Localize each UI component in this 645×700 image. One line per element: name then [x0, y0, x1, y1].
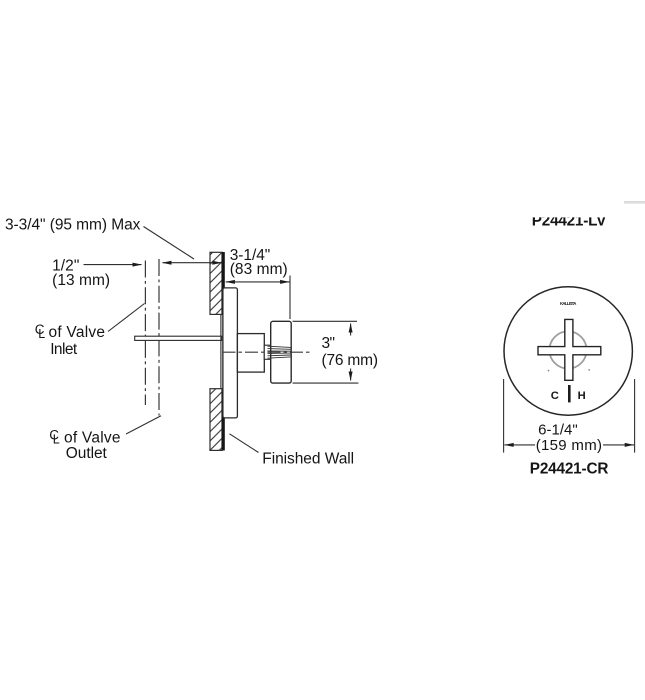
dimension 3-1/4 line: [226, 281, 290, 283]
leader outlet: [126, 416, 161, 434]
svg-text:Finished Wall: Finished Wall: [262, 451, 354, 468]
svg-text:(83 mm): (83 mm): [230, 261, 288, 278]
stem splines: [268, 346, 291, 358]
finished wall bottom section (hatched): [210, 389, 222, 451]
escutcheon plate front view (circle): [504, 287, 632, 415]
svg-text:3-3/4" (95 mm) Max: 3-3/4" (95 mm) Max: [5, 217, 141, 234]
svg-text:C: C: [551, 390, 559, 402]
handle skirt inner circle: [549, 331, 586, 368]
extension lines for 6-1/4: [503, 379, 505, 453]
valve stem: [264, 345, 271, 359]
handle knob (side profile): [271, 321, 292, 383]
escutcheon sleeve (side profile): [223, 288, 238, 418]
leader for 3-3/4 max: [144, 227, 195, 260]
svg-text:of Valve: of Valve: [49, 324, 106, 341]
svg-text:L: L: [53, 433, 60, 447]
svg-text:(159 mm): (159 mm): [536, 437, 602, 454]
leader inlet: [108, 304, 145, 332]
faint crop artifact top-right: [624, 201, 645, 204]
svg-text:KALLISTA: KALLISTA: [560, 301, 577, 306]
svg-text:3": 3": [322, 335, 336, 352]
extension line for 3-1/4: [289, 276, 291, 320]
small dots on plate: [548, 370, 550, 372]
valve bonnet body: [237, 334, 264, 373]
svg-text:(13 mm): (13 mm): [52, 272, 110, 289]
cross handle front view: [538, 319, 601, 380]
wall front face thick edge (top): [222, 252, 225, 315]
finished wall top section (hatched): [210, 252, 222, 314]
svg-text:of Valve: of Valve: [64, 430, 121, 447]
dimension 1/2 inch line: [84, 264, 142, 266]
dimension 3 inch vertical line with arrows: [350, 324, 352, 336]
plate edge lines in wall opening: [220, 314, 222, 388]
svg-text:Inlet: Inlet: [50, 341, 78, 358]
svg-text:Outlet: Outlet: [66, 445, 108, 462]
inlet pipe: [135, 336, 222, 340]
temperature indicator line: [568, 385, 571, 402]
centerline of valve inlet (dash-dot vertical): [144, 261, 146, 406]
centerline of valve outlet (dash-dot vertical): [158, 259, 160, 416]
dimension 3-3/4 max line: [163, 262, 222, 264]
svg-text:H: H: [578, 390, 586, 402]
svg-text:L: L: [38, 327, 45, 341]
svg-text:P24421-CR: P24421-CR: [530, 460, 609, 477]
model number P24421-LV (top-cropped): [532, 213, 607, 230]
horizontal centerline through valve: [223, 351, 312, 353]
dimension 3 inch extension lines: [293, 320, 358, 322]
leader finished wall: [230, 434, 259, 453]
svg-text:(76 mm): (76 mm): [322, 352, 379, 369]
wall front face thick edge (bottom): [222, 389, 225, 451]
dimension 6-1/4 line: [504, 444, 535, 446]
